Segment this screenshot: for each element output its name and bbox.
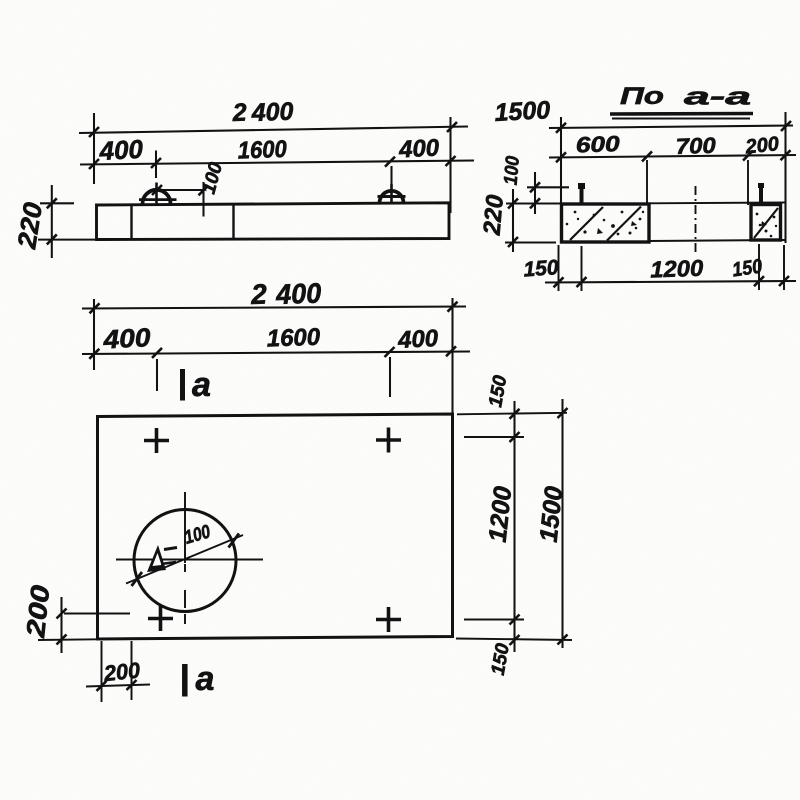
svg-text:200: 200 [20, 583, 55, 640]
dimension line 2400 elevation [79, 98, 468, 137]
svg-text:100: 100 [501, 155, 524, 186]
svg-text:а-а: а-а [684, 84, 751, 111]
svg-text:По: По [620, 83, 664, 110]
bottom extension stubs section [559, 244, 785, 291]
rebar pin left [580, 183, 584, 204]
dimension line 2400 plan [82, 277, 466, 313]
dim 200 plan bottom [86, 641, 150, 702]
svg-text:1200: 1200 [650, 255, 704, 283]
svg-text:600: 600 [575, 131, 621, 158]
loop mark top-right [376, 428, 401, 453]
svg-text:150: 150 [523, 256, 560, 281]
loop mark top-left [144, 428, 169, 453]
right concrete block section [751, 205, 781, 241]
loop mark bottom-right [376, 607, 401, 632]
extension lines plan top [94, 298, 453, 413]
dim 220 section [478, 189, 560, 252]
svg-text:150: 150 [731, 256, 764, 282]
dim 200 plan left [20, 583, 130, 653]
dimension line 1500 section [494, 96, 793, 133]
svg-text:400: 400 [396, 325, 439, 354]
dim 220 elevation [11, 185, 95, 258]
dimension line 400/1600/400 plan [82, 322, 470, 359]
svg-text:2: 2 [250, 278, 268, 310]
svg-text:1200: 1200 [484, 485, 518, 544]
section mark a bottom [185, 660, 215, 698]
svg-text:1600: 1600 [237, 136, 288, 165]
svg-text:200: 200 [744, 133, 780, 158]
svg-text:400: 400 [250, 98, 294, 127]
loop mark bottom-left [148, 606, 173, 631]
svg-text:400: 400 [275, 277, 322, 310]
lifting loop right [378, 184, 406, 204]
svg-text:700: 700 [675, 133, 717, 159]
svg-text:2: 2 [231, 99, 247, 128]
svg-text:400: 400 [102, 322, 152, 355]
svg-text:220: 220 [478, 193, 509, 237]
svg-text:а: а [192, 366, 211, 404]
hole centre lines [116, 492, 263, 624]
dimension line 150/1200/150 section [523, 255, 796, 288]
plan outline [98, 414, 453, 639]
extension lines plan right [456, 413, 572, 640]
centre line section [695, 186, 697, 256]
lifting loop left [139, 183, 177, 205]
svg-text:1500: 1500 [535, 485, 569, 544]
extension lines section [561, 112, 786, 243]
section title [610, 83, 753, 119]
dim 100 section [501, 155, 569, 214]
svg-text:а: а [196, 660, 215, 698]
svg-text:400: 400 [98, 134, 144, 166]
dimension line 150/1200/150 plan right [484, 374, 520, 677]
dimension line 600/700/200 section [549, 131, 796, 162]
slab web lines section [649, 203, 786, 242]
svg-text:1500: 1500 [494, 96, 551, 127]
section mark a top [183, 366, 211, 404]
hole diameter dimension [126, 521, 243, 586]
slab outline [97, 203, 450, 240]
rebar pin right [759, 183, 763, 204]
dimension line 1500 plan right [535, 399, 569, 648]
dim 100 elevation [152, 160, 227, 217]
svg-text:400: 400 [397, 134, 440, 163]
hole circle [134, 510, 236, 612]
svg-text:1600: 1600 [266, 324, 321, 353]
left concrete block section [562, 204, 650, 242]
svg-text:200: 200 [102, 657, 142, 686]
dimension line 400/1600/400 elevation [80, 134, 474, 169]
extension lines elevation [94, 113, 451, 213]
